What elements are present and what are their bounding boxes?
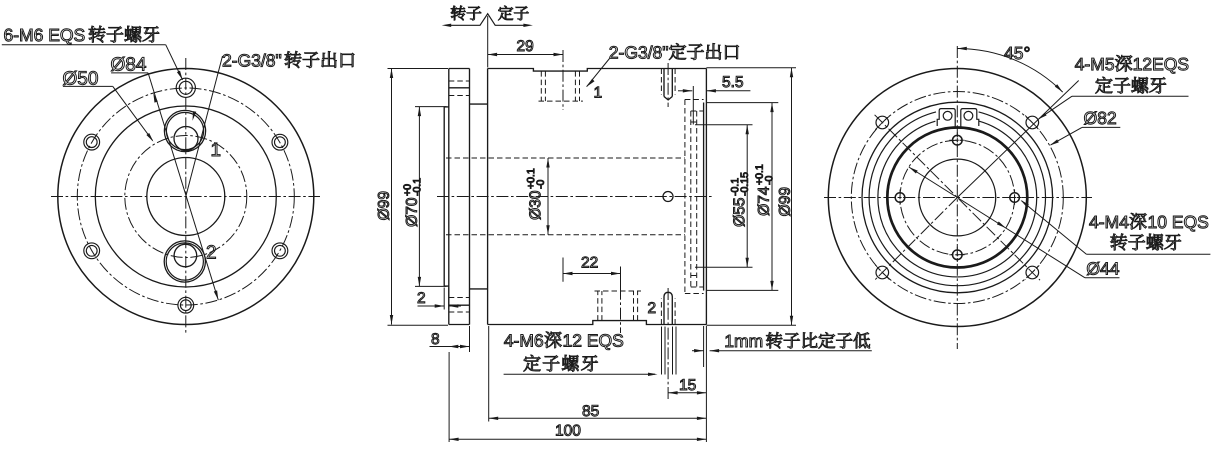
dimension 45 degrees arc: [957, 47, 1062, 92]
left view port 2 bore circle: [174, 244, 197, 267]
rotor hub end face Ø70: [444, 107, 449, 286]
M6 hole extension lines: [662, 327, 677, 375]
label 6-M6 EQS rotor thread: [2, 26, 183, 80]
dimension Ø74 with tolerance: [706, 103, 778, 291]
left view outer circle flange Ø99: [58, 69, 314, 325]
right view bore circle Ø30: [919, 159, 996, 236]
left view 6x M6 bolt holes: [84, 78, 288, 313]
left view bolt circle Ø84 (dash-dot): [77, 88, 294, 305]
M6 tapped hole top (section): [661, 63, 675, 107]
label 1mm rotor lower than stator: [692, 326, 872, 367]
dimension Ø55 with tolerance: [695, 125, 753, 267]
stator body top edge with port 1 recess: [488, 69, 707, 72]
port number 1 label (section): [595, 87, 602, 98]
left view hub circle Ø70: [95, 106, 276, 287]
dimension Ø50 leader with label: [63, 71, 153, 142]
right view M4 bolt circle Ø44 (dash-dot): [900, 140, 1015, 255]
rotor neck Ø72: [470, 104, 488, 289]
right view stator plate circle Ø74: [862, 102, 1053, 293]
dimension 2 hub step: [418, 288, 462, 310]
retaining ring lugs: [937, 109, 979, 127]
dimension Ø70 with tolerance: [403, 107, 446, 287]
port number 1 label (left view): [212, 143, 220, 156]
right view circle Ø69 (interrupted at lugs): [869, 112, 1045, 286]
right view horizontal centerline: [824, 197, 1092, 199]
right view retaining ring thick circle: [887, 128, 1027, 268]
dimension 5.5: [678, 76, 750, 124]
label 4-M4 depth 10 EQS rotor thread: [1021, 200, 1211, 254]
right view 4x M5 holes: [875, 116, 1039, 280]
pin hole on right face: [663, 192, 673, 202]
dimension Ø99 left: [378, 69, 448, 326]
left view bore circle Ø30: [147, 158, 225, 236]
right view 45deg radial line NE: [957, 81, 1078, 198]
dimension Ø82 leader: [1050, 112, 1121, 146]
left view port 1 counterbore circles: [164, 110, 205, 151]
dimension 100: [449, 326, 706, 442]
stator body left face: [487, 69, 489, 325]
M6 tapped hole bottom (section): [661, 292, 675, 324]
flange Ø99 outline: [449, 69, 470, 325]
M6 hole axis bottom: [667, 288, 669, 400]
stator right end face: [705, 69, 707, 325]
stator body bottom edge with port 2 recess: [488, 321, 707, 325]
label 4-M5 depth 12 EQS stator thread: [1038, 55, 1189, 119]
flange M6 hole hidden lines bottom: [449, 298, 470, 313]
left view port 1 bore circle: [174, 127, 198, 151]
dimension 8 flange width: [430, 326, 470, 352]
stator insert hidden lines right end: [685, 100, 704, 294]
left view horizontal centerline: [51, 196, 320, 198]
bore Ø30 hidden lines: [446, 158, 685, 235]
right view outer circle Ø99: [828, 69, 1086, 327]
port 1 axis centerline: [562, 50, 564, 110]
rotor/stator split header: [442, 6, 533, 68]
left view vertical centerline: [185, 58, 187, 335]
port 1 G3/8 hidden thread: [539, 71, 583, 101]
left view port 2 counterbore circles: [164, 241, 205, 282]
port number 2 label (section): [648, 302, 655, 313]
right view vertical centerline: [956, 46, 958, 349]
label 2-G3/8 rotor outlet: [186, 51, 354, 196]
dimension 15: [668, 379, 706, 394]
label 4-M6 depth 12 EQS stator thread: [504, 332, 658, 376]
dimension Ø99 right: [706, 68, 796, 325]
dimension Ø44 diameter line: [909, 167, 1120, 278]
label 2-G3/8 stator outlet: [587, 43, 739, 86]
right view M5 bolt circle Ø82 (dash-dot): [851, 92, 1063, 304]
port 2 G3/8 hidden thread: [595, 291, 642, 321]
left view port pitch circle Ø50 (dash-dot): [125, 136, 247, 258]
rotor right face recessed 1mm: [703, 103, 705, 291]
dimension Ø30 with tolerance: [527, 158, 550, 235]
middle view horizontal centerline: [437, 196, 714, 198]
port number 2 label (left view): [207, 245, 216, 258]
flange M6 hole hidden lines top: [449, 81, 470, 96]
dimension 29: [488, 40, 563, 59]
right view 45deg diagonal centerline SW: [875, 198, 957, 280]
right view 45deg diagonal centerline NW-SE: [875, 115, 1040, 280]
dimension Ø84 diameter line with label: [111, 57, 218, 300]
right view circle Ø62 (interrupted at lugs): [878, 121, 1037, 277]
right view 4x M4 holes: [892, 132, 1023, 263]
port 2 axis centerline: [620, 268, 622, 333]
dimension 85: [489, 326, 707, 422]
dimension 22: [563, 257, 621, 290]
